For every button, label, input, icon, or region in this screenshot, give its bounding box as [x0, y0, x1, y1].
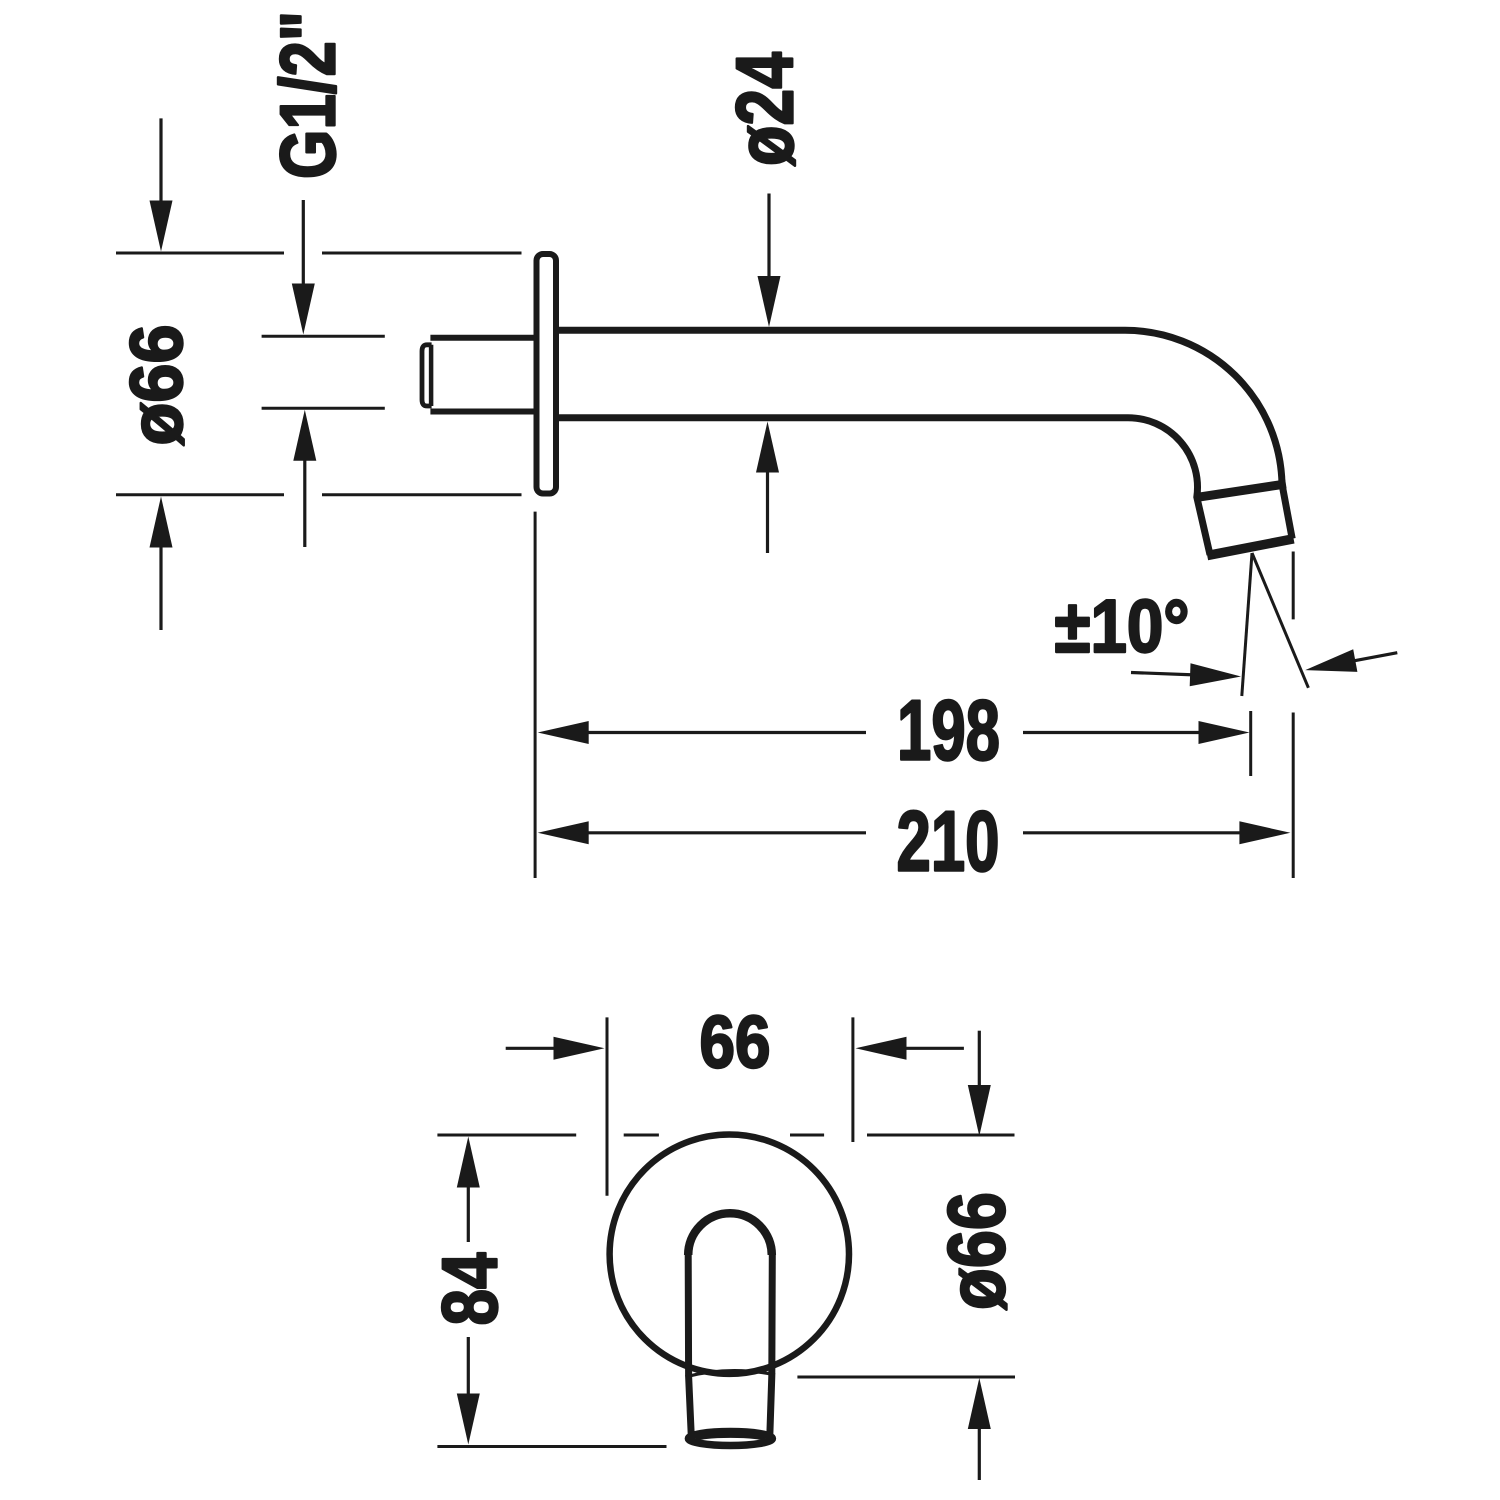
extension line circle bottom — [797, 1376, 1015, 1379]
extension line circle top — [437, 1134, 576, 1137]
angle arrow left — [1131, 673, 1194, 675]
dimension arrow 84 top — [467, 1186, 470, 1242]
svg-text:84: 84 — [428, 1253, 514, 1326]
extension line 66 right — [851, 1017, 854, 1142]
extension line 210 — [1292, 713, 1295, 879]
dimension arrow G1/2 bottom — [303, 456, 306, 547]
svg-text:66: 66 — [700, 1001, 771, 1084]
svg-text:198: 198 — [897, 684, 1000, 779]
extension line wall plane — [534, 512, 537, 878]
threaded connector G1/2 — [430, 335, 534, 341]
dimension arrow ø66 top — [159, 118, 162, 205]
angle arrow right — [1352, 653, 1397, 662]
extension line flange top — [116, 252, 284, 255]
svg-text:ø66: ø66 — [115, 325, 198, 446]
spout tube inner edge — [556, 418, 1210, 555]
dimension arrow 66 right — [902, 1047, 964, 1050]
aerator band line — [1195, 484, 1286, 498]
dimension arrow 66 left — [506, 1047, 558, 1050]
dimension arrow ø66 bottom — [159, 543, 162, 630]
dimension arrow ø24 bottom — [766, 468, 769, 553]
tube bend arc (front view) — [688, 1213, 772, 1255]
extension line tip bottom — [437, 1445, 666, 1448]
extension line flange bottom — [116, 493, 284, 496]
svg-text:210: 210 — [897, 795, 1000, 890]
aerator band (front view) — [686, 1371, 776, 1377]
spout tube outer edge — [556, 330, 1292, 538]
dimension arrow G1/2 top — [302, 200, 305, 288]
spout mouth cut — [1207, 539, 1293, 556]
svg-text:ø66: ø66 — [932, 1192, 1022, 1310]
extension line G1/2 bottom — [262, 407, 385, 410]
wall flange (side view) — [537, 254, 557, 494]
angle line right — [1252, 553, 1308, 688]
tube side right — [770, 1255, 773, 1436]
tube side left — [688, 1255, 691, 1437]
svg-text:±10°: ±10° — [1055, 584, 1190, 668]
svg-text:ø24: ø24 — [721, 52, 811, 166]
mouth inner ellipse — [696, 1436, 764, 1444]
extension line 198 — [1249, 711, 1252, 776]
dimension arrow ø24 top — [767, 194, 770, 281]
mouth outer ellipse — [688, 1432, 772, 1446]
dimension arrow ø66 top (front view) — [978, 1031, 981, 1089]
dimension arrow 84 bottom — [467, 1337, 470, 1394]
dimension 210 — [586, 831, 866, 834]
flange circle (front view) — [610, 1135, 849, 1374]
extension line G1/2 top — [262, 335, 385, 338]
svg-text:G1/2": G1/2" — [266, 11, 352, 179]
dimension arrow ø66 bottom (front view) — [978, 1425, 981, 1480]
nominal axis marker — [1292, 552, 1295, 620]
dimension 198 — [586, 731, 866, 734]
angle line left — [1242, 553, 1252, 696]
extension line 66 left — [606, 1017, 609, 1195]
